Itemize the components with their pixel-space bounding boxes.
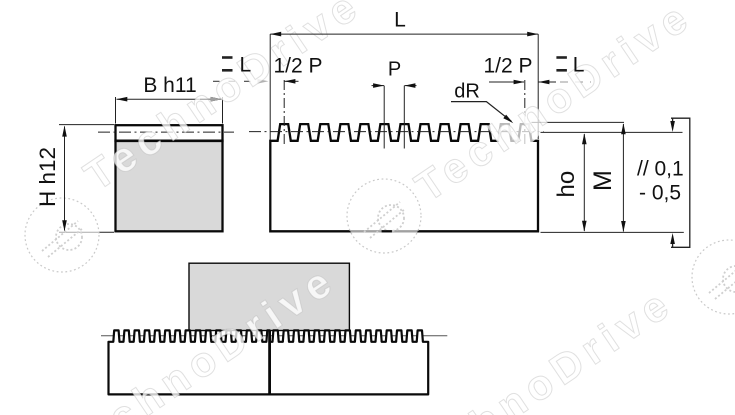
svg-text:P: P	[388, 59, 401, 81]
svg-text:dR: dR	[454, 81, 480, 103]
svg-text:1/2 P: 1/2 P	[273, 55, 322, 78]
svg-text:1/2 P: 1/2 P	[483, 55, 532, 78]
svg-text:L: L	[573, 54, 585, 77]
svg-text:L: L	[240, 54, 252, 77]
svg-text:M: M	[589, 170, 617, 191]
svg-text:H h12: H h12	[35, 147, 60, 207]
svg-text:- 0,5: - 0,5	[639, 182, 681, 205]
svg-text:ho: ho	[553, 171, 580, 198]
svg-text:L: L	[394, 9, 406, 32]
svg-text:B h11: B h11	[143, 74, 196, 97]
svg-text:// 0,1: // 0,1	[637, 158, 684, 181]
